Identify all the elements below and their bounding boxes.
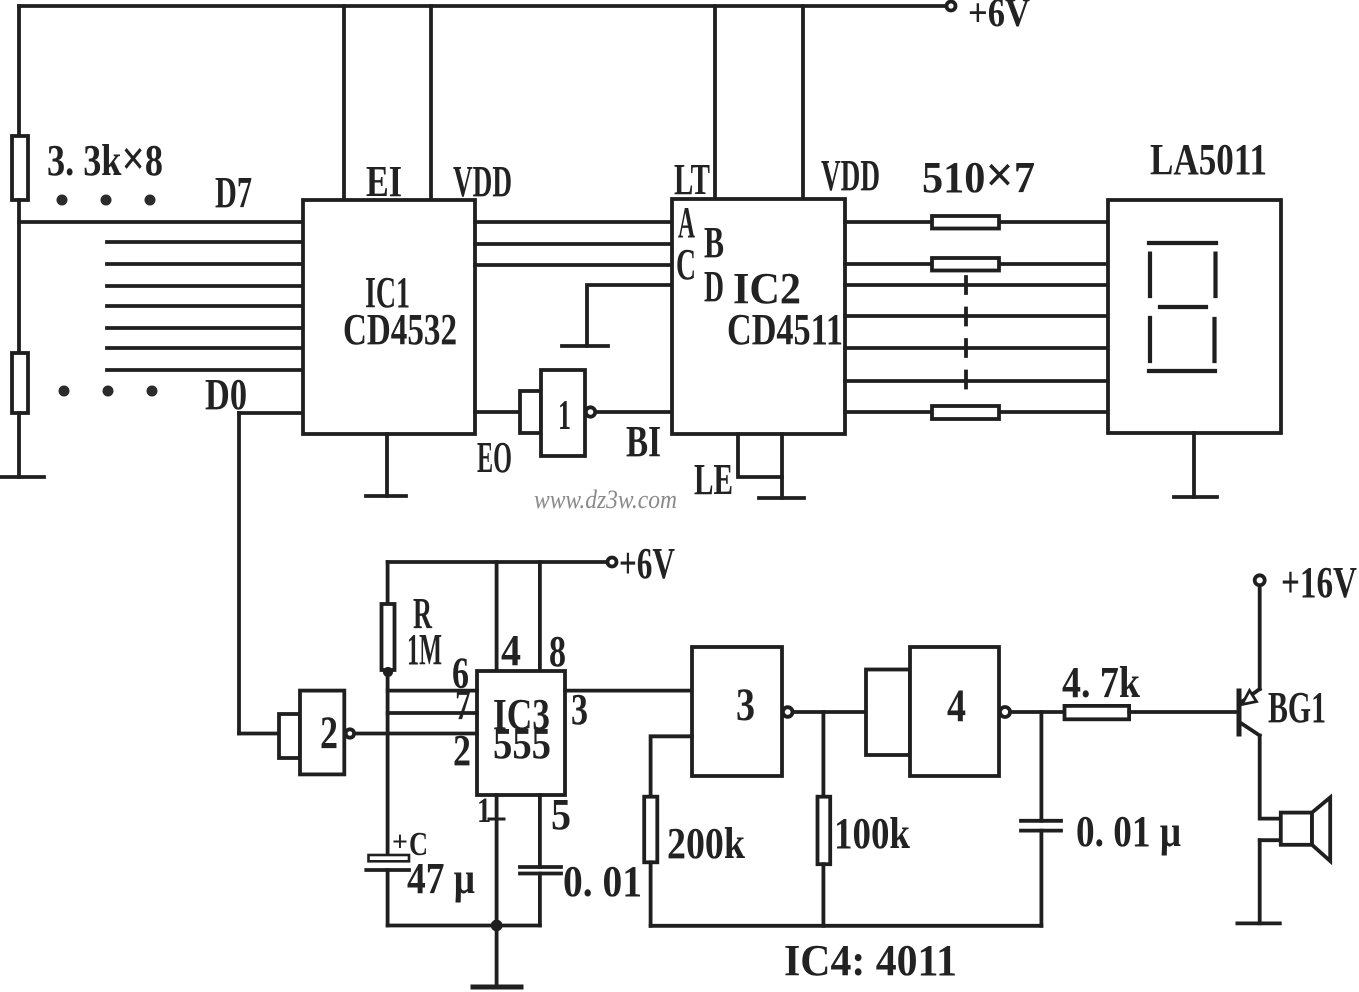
svg-text:D: D [704, 262, 724, 311]
svg-text:EO: EO [477, 433, 512, 482]
svg-text:BI: BI [626, 417, 661, 466]
svg-text:2: 2 [453, 726, 471, 775]
svg-text:BG1: BG1 [1268, 683, 1326, 732]
svg-text:CD4532: CD4532 [343, 305, 457, 354]
svg-text:+6V: +6V [968, 0, 1030, 35]
svg-text:C: C [676, 240, 696, 289]
svg-text:100k: 100k [834, 809, 910, 858]
svg-text:VDD: VDD [453, 157, 512, 206]
svg-text:IC4: 4011: IC4: 4011 [784, 936, 957, 985]
svg-text:3: 3 [736, 679, 755, 731]
svg-text:CD4511: CD4511 [727, 305, 843, 354]
svg-text:3: 3 [571, 685, 588, 734]
svg-text:0. 01 μ: 0. 01 μ [1076, 807, 1181, 856]
svg-text:VDD: VDD [821, 151, 880, 200]
svg-text:EI: EI [366, 157, 402, 206]
svg-text:+16V: +16V [1281, 558, 1357, 607]
svg-text:LA5011: LA5011 [1150, 135, 1267, 184]
svg-text:D7: D7 [215, 168, 252, 217]
svg-text:3. 3k×8: 3. 3k×8 [47, 130, 163, 186]
svg-text:1: 1 [558, 393, 571, 439]
svg-text:4: 4 [501, 626, 521, 675]
svg-text:+6V: +6V [619, 539, 675, 588]
svg-text:www.dz3w.com: www.dz3w.com [534, 485, 677, 514]
svg-text:4. 7k: 4. 7k [1062, 658, 1140, 707]
svg-text:5: 5 [551, 790, 571, 839]
svg-text:510×7: 510×7 [922, 147, 1035, 204]
svg-text:47 μ: 47 μ [407, 854, 475, 903]
svg-text:+: + [392, 827, 408, 858]
svg-text:7: 7 [455, 680, 471, 729]
svg-text:200k: 200k [667, 819, 745, 868]
svg-text:8: 8 [549, 627, 566, 676]
svg-text:2: 2 [320, 707, 338, 759]
svg-text:1M: 1M [407, 625, 442, 674]
svg-text:1: 1 [477, 790, 491, 830]
svg-text:LE: LE [694, 455, 733, 504]
svg-text:LT: LT [674, 155, 710, 204]
svg-text:4: 4 [947, 680, 966, 732]
svg-text:555: 555 [493, 719, 551, 768]
svg-text:D0: D0 [205, 370, 247, 419]
svg-text:0. 01: 0. 01 [563, 857, 642, 906]
svg-text:B: B [704, 218, 724, 267]
